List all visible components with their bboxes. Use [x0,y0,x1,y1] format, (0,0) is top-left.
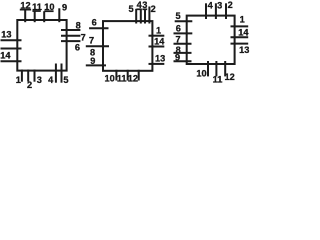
pin 10 [44,2,54,22]
pin 13 [239,45,249,55]
pin 14 [231,27,250,37]
pin 2 [27,70,32,90]
svg-text:14: 14 [0,51,11,61]
pin 1 [149,26,165,36]
IC package U2 body [103,21,152,71]
pin 9 [86,56,106,66]
svg-text:7: 7 [81,32,86,42]
pin 3 [35,70,42,85]
pin 14 [0,51,21,62]
pin 9 [59,3,67,23]
pin 12 [128,70,139,84]
pin 2 [149,4,155,23]
stub between 13 and 14 [1,48,22,50]
svg-text:13: 13 [239,45,249,55]
svg-text:5: 5 [63,75,68,85]
pin 9 [174,53,192,63]
svg-text:3: 3 [142,0,147,10]
svg-text:14: 14 [238,27,249,37]
svg-text:1: 1 [240,14,245,24]
pin 8 [90,47,95,57]
svg-text:5: 5 [129,4,134,14]
svg-text:6: 6 [176,24,181,34]
pin 3 [216,1,222,20]
pin 6 [89,18,108,29]
pin 13 [1,29,22,40]
pin 4 [136,0,142,23]
pin 5 [129,4,137,23]
pin 7 [86,36,109,47]
pin 4 [206,1,214,20]
stub above pin 13 [231,43,249,45]
pin 11 [32,2,42,22]
svg-text:4: 4 [48,75,54,85]
svg-text:10: 10 [104,73,114,83]
pin 7 [61,32,86,42]
svg-text:2: 2 [151,4,156,14]
pin 5 [175,11,193,21]
pin 12 [224,61,234,82]
svg-text:6: 6 [75,43,80,53]
pin 6 [174,24,193,34]
svg-text:9: 9 [90,56,95,66]
svg-text:11: 11 [117,74,127,84]
pin 7 [174,35,192,45]
IC package U3 body [187,16,235,64]
pin 8 [174,45,192,55]
pin 5 [62,64,69,86]
svg-text:11: 11 [213,74,223,84]
IC package U1 body [17,20,66,71]
pin 14 [149,37,166,47]
svg-text:7: 7 [89,36,94,46]
svg-text:9: 9 [62,3,67,13]
svg-text:3: 3 [217,1,222,11]
svg-text:13: 13 [1,29,11,39]
svg-text:1: 1 [16,75,21,85]
pin 1 [231,14,249,26]
pin 1 [16,70,22,85]
pin 11 [117,70,128,84]
svg-text:5: 5 [176,11,181,21]
pin 4 [48,64,56,85]
svg-text:2: 2 [228,0,233,10]
svg-text:6: 6 [92,18,97,28]
svg-text:1: 1 [156,26,161,36]
svg-text:12: 12 [128,74,138,84]
pin 12 [20,1,31,23]
pin 11 [213,61,223,84]
pin 13 [149,53,166,64]
svg-text:3: 3 [37,75,42,85]
pin 2 [226,0,233,19]
pin 6 [61,41,80,52]
pin 8 [61,21,81,31]
svg-text:10: 10 [196,69,206,79]
svg-text:14: 14 [154,37,165,47]
pin 10 [104,70,116,84]
svg-text:4: 4 [208,1,214,11]
pin 10 [196,61,208,79]
pin 3 [142,0,147,24]
svg-text:13: 13 [155,53,165,63]
